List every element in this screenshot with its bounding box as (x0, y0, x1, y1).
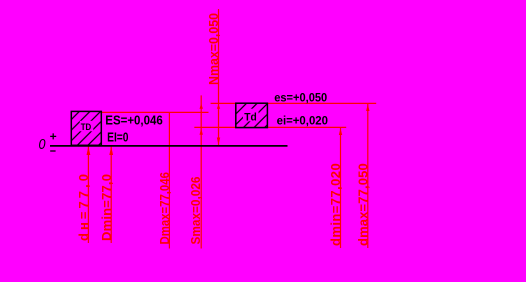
svg-text:dmin=77,020: dmin=77,020 (328, 163, 343, 246)
svg-text:ES=+0,046: ES=+0,046 (105, 112, 163, 127)
svg-text:es=+0,050: es=+0,050 (274, 91, 327, 105)
svg-text:Dmax=77,046: Dmax=77,046 (157, 172, 172, 244)
svg-text:Smax=0,026: Smax=0,026 (188, 177, 203, 245)
svg-text:TD: TD (81, 122, 92, 132)
svg-text:EI=0: EI=0 (107, 129, 128, 144)
svg-text:dmax=77,050: dmax=77,050 (355, 163, 370, 246)
svg-text:Nmax=0,050: Nmax=0,050 (206, 13, 221, 85)
svg-text:Td: Td (244, 111, 256, 123)
svg-text:Dmin=77,0: Dmin=77,0 (99, 174, 114, 241)
svg-text:ei=+0,020: ei=+0,020 (277, 114, 329, 128)
svg-text:0: 0 (39, 137, 46, 153)
